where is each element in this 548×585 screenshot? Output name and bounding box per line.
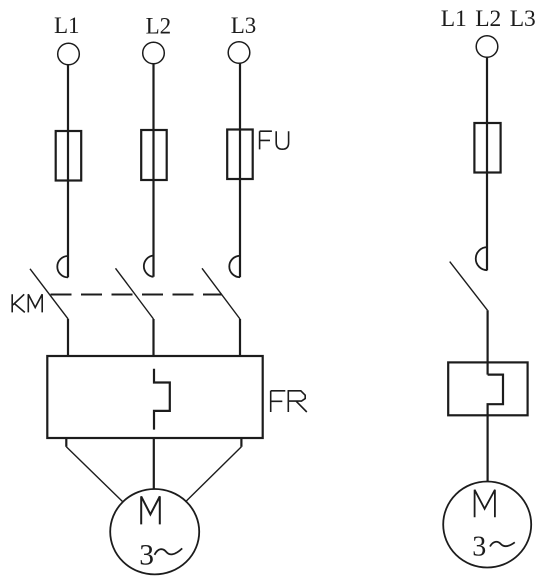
svg-text:L2: L2 — [475, 6, 501, 32]
svg-text:3: 3 — [472, 532, 486, 563]
svg-text:L3: L3 — [231, 13, 257, 38]
svg-text:L1: L1 — [54, 13, 80, 38]
svg-text:L3: L3 — [510, 6, 536, 32]
svg-text:3: 3 — [139, 539, 154, 571]
svg-text:L2: L2 — [146, 13, 172, 38]
svg-text:L1: L1 — [441, 6, 467, 32]
